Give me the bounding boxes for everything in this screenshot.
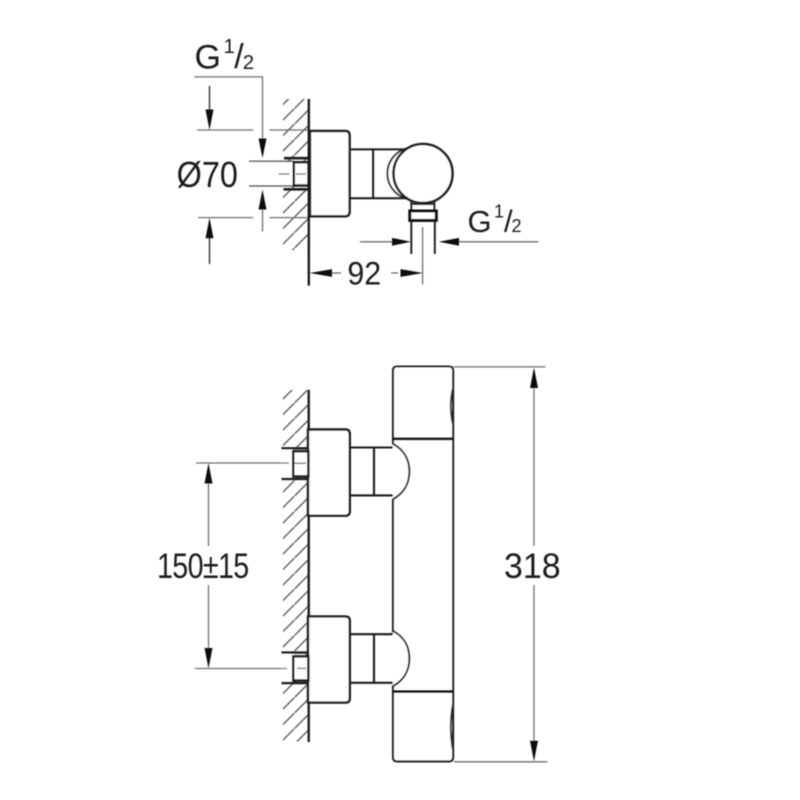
outlet G1/2 dimension line left <box>360 241 393 243</box>
dimension 150±15 line upper segment <box>208 484 210 547</box>
lower connection dome <box>393 631 410 687</box>
wall line (front view) <box>308 390 310 742</box>
dimension 318 bottom extension line <box>454 761 548 763</box>
leader arrowhead down to pipe top <box>259 139 267 159</box>
inlet pipe bottom line <box>249 185 294 187</box>
bar top cap arc <box>451 388 453 424</box>
dimension Ø70 bottom extension line <box>198 217 253 219</box>
lower connection joint line <box>373 634 375 683</box>
svg-text:92: 92 <box>347 256 381 292</box>
lower union pipe white strip <box>282 654 294 682</box>
dimension 150±15 line lower segment <box>208 585 210 648</box>
dimension 318 line lower segment <box>533 585 535 741</box>
control knob (main circle) <box>394 144 453 203</box>
dimension Ø70 top extension line <box>197 129 253 131</box>
outlet centerline <box>422 227 424 285</box>
bar bottom cap arc <box>451 704 453 750</box>
valve neck top line <box>350 148 407 150</box>
inlet union nut box <box>294 162 309 185</box>
escutcheon flange (top view) <box>310 131 350 216</box>
svg-text:150±15: 150±15 <box>157 546 249 585</box>
outlet G1/2 left arrow <box>392 238 411 246</box>
leader line G1/2 to inlet pipe <box>194 77 262 139</box>
outlet G1/2 dimension line right <box>459 241 538 243</box>
G 1/2 label (outlet) <box>468 202 522 239</box>
leader lower shaft <box>262 210 264 232</box>
svg-text:318: 318 <box>504 548 561 587</box>
dimension Ø70 lower arrow <box>206 218 214 239</box>
lower centerline dash <box>297 667 306 669</box>
dimension 318 lower arrow <box>530 741 538 762</box>
dimension 92 right arrow <box>391 272 398 274</box>
outlet collar nut <box>410 211 437 220</box>
dimension 318 top extension line <box>454 366 546 368</box>
wall hatch (top view) <box>283 99 309 250</box>
upper connection joint line <box>373 448 375 496</box>
upper centerline dash <box>295 462 307 464</box>
svg-text:2: 2 <box>243 51 254 74</box>
dimension 318 line upper segment <box>533 388 535 546</box>
lower union flange lines <box>282 651 309 653</box>
inlet centerline dashes <box>279 173 290 175</box>
upper connection neck lines <box>350 446 396 448</box>
valve body joint line <box>372 149 374 198</box>
svg-text:Ø70: Ø70 <box>177 155 238 195</box>
dimension 150±15 lower extension line <box>195 668 287 670</box>
svg-text:G: G <box>195 39 221 77</box>
upper connection dome <box>393 444 410 500</box>
svg-text:1: 1 <box>494 202 504 222</box>
dimension 318 upper arrow <box>530 367 538 388</box>
wall hatch (front view) <box>283 390 309 742</box>
svg-text:G: G <box>468 204 492 239</box>
dimension 150±15 lower arrow <box>205 648 213 669</box>
dimension Ø70 upper arrow <box>209 86 211 110</box>
outlet G1/2 right arrow <box>439 238 459 246</box>
dimension 150±15 upper extension line <box>196 462 289 464</box>
outlet neck <box>410 202 412 210</box>
lower connection neck lines <box>350 633 396 635</box>
upper union nut <box>293 451 308 476</box>
leader arrowhead up to pipe bottom <box>259 190 267 210</box>
wall line (top view) <box>308 99 310 286</box>
inlet flange thick top edge <box>284 157 309 160</box>
valve neck bottom line <box>350 197 407 199</box>
bar top cap line <box>393 437 453 440</box>
bar bottom cap line <box>393 690 453 693</box>
upper union pipe white strip <box>282 450 294 478</box>
svg-text:2: 2 <box>512 216 522 236</box>
svg-text:1: 1 <box>224 35 235 58</box>
lower connection escutcheon <box>308 616 350 702</box>
lower union nut <box>293 656 308 680</box>
upper connection escutcheon <box>308 430 350 516</box>
inlet flange thick bottom edge <box>284 188 309 191</box>
dimension 150±15 upper arrow <box>205 463 213 484</box>
inlet pipe (white fill over hatch) <box>249 162 309 185</box>
inlet pipe top line <box>249 160 294 162</box>
outlet pipe <box>410 222 412 254</box>
upper union flange lines <box>282 447 309 449</box>
cartridge arc (secondary circle) <box>388 148 440 200</box>
dimension 92 left arrow (at wall) <box>310 269 332 277</box>
thermostat bar body <box>393 367 453 762</box>
G 1/2 label (inlet, top-left) <box>195 35 255 77</box>
